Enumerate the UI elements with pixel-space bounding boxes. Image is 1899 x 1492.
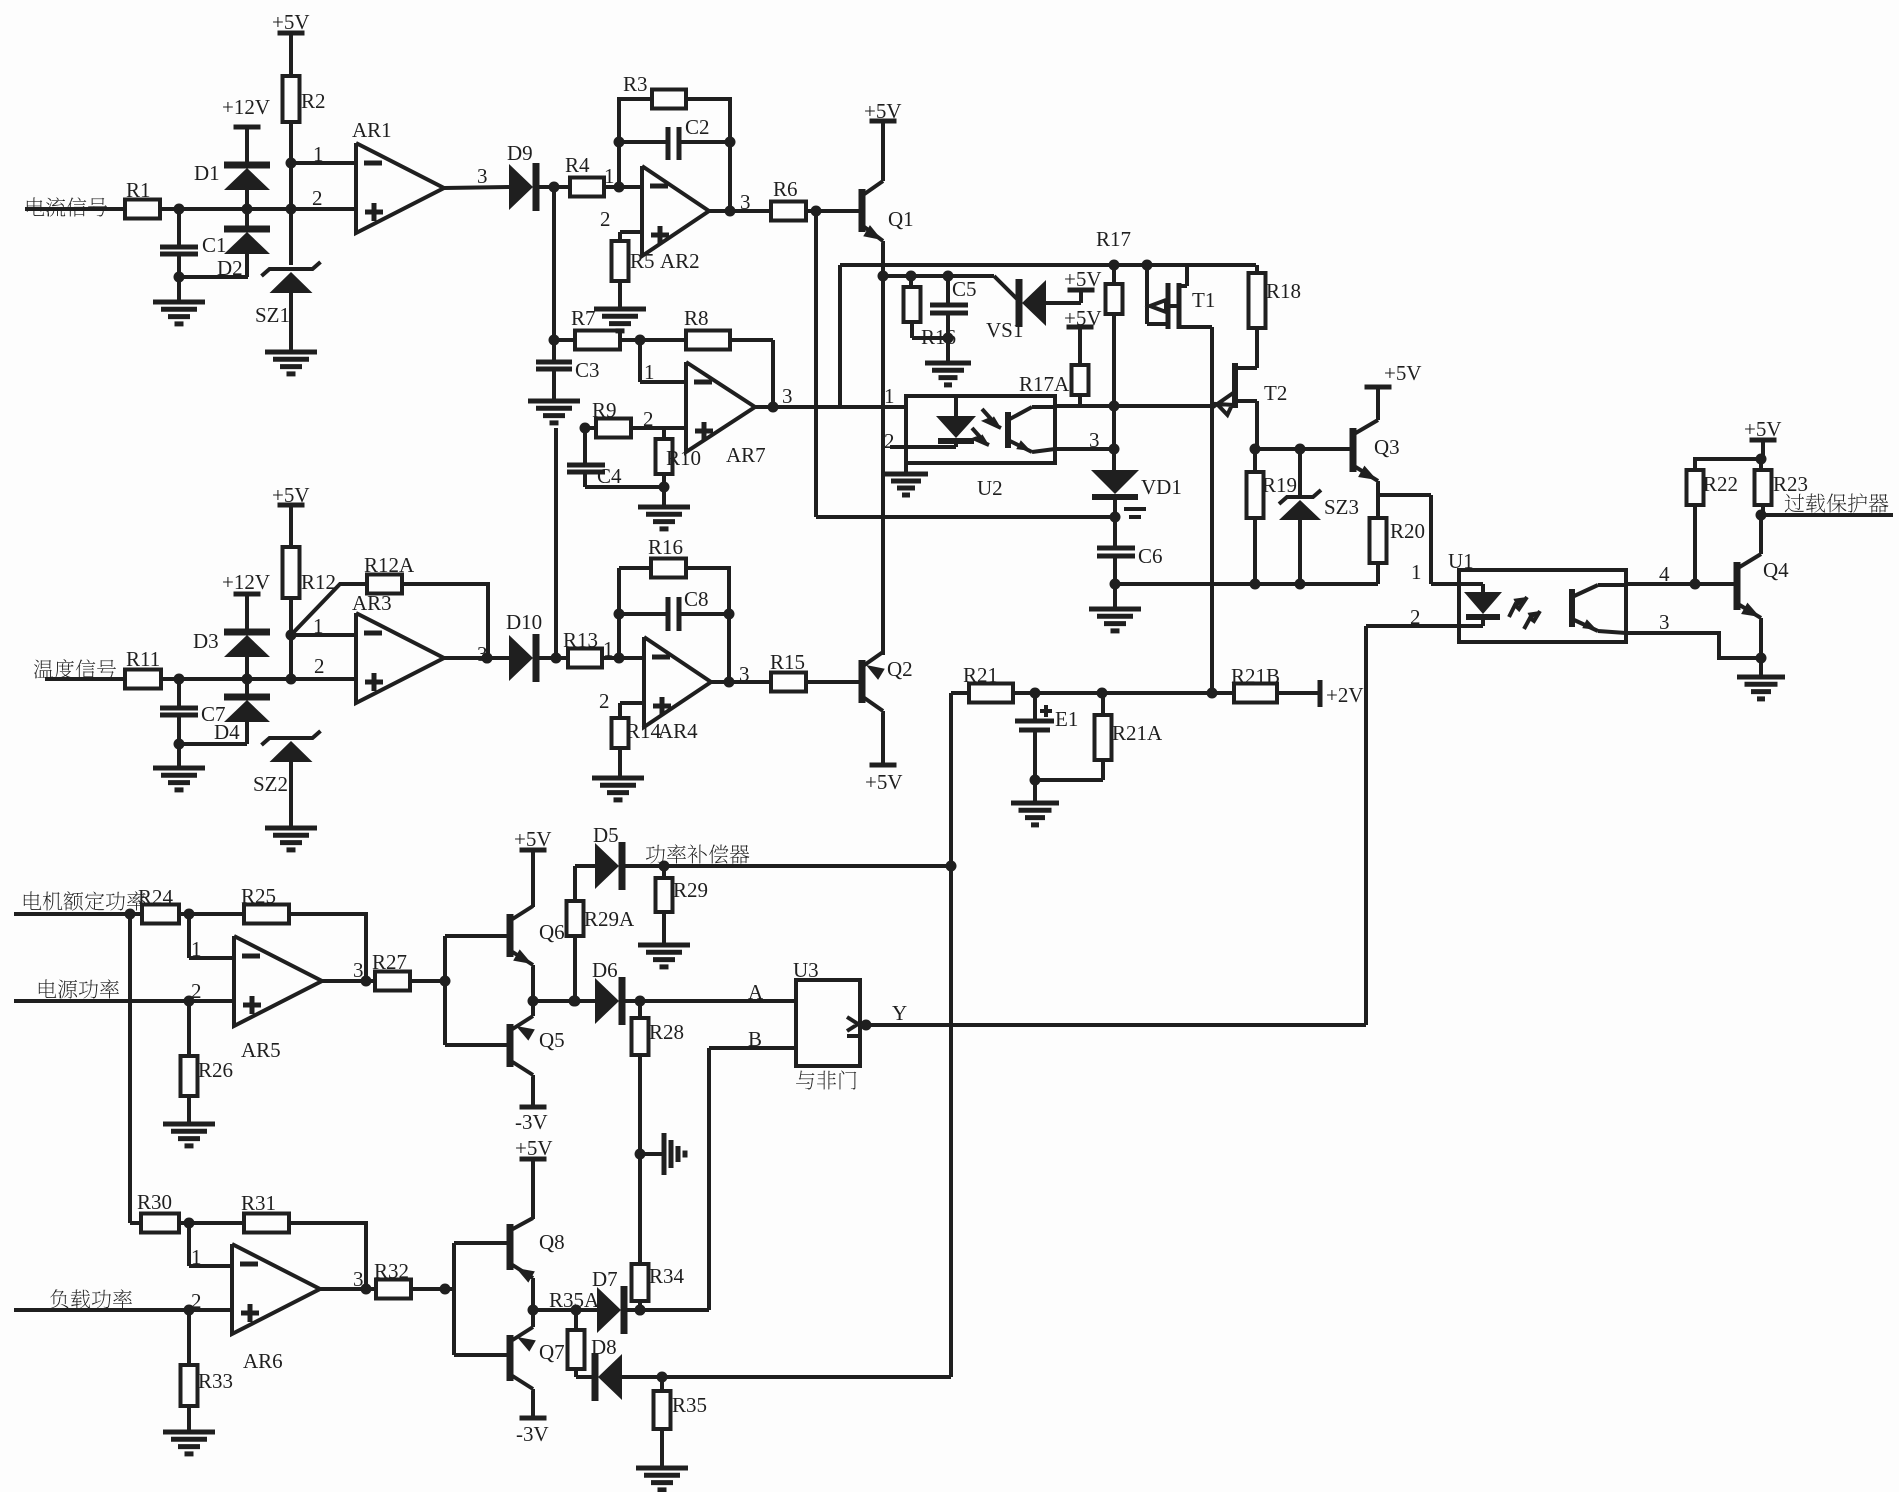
svg-text:Q3: Q3 — [1374, 435, 1400, 459]
svg-text:AR5: AR5 — [241, 1038, 281, 1062]
svg-text:R19: R19 — [1262, 473, 1297, 497]
svg-text:C6: C6 — [1138, 544, 1163, 568]
svg-text:+5V: +5V — [514, 827, 552, 851]
svg-text:3: 3 — [353, 958, 364, 982]
svg-text:R35: R35 — [672, 1393, 707, 1417]
svg-text:+5V: +5V — [272, 10, 310, 34]
svg-text:R11: R11 — [126, 647, 160, 671]
svg-text:+12V: +12V — [222, 95, 270, 119]
svg-text:+5V: +5V — [1064, 306, 1102, 330]
svg-text:R3: R3 — [623, 72, 648, 96]
svg-text:+12V: +12V — [222, 570, 270, 594]
svg-text:1: 1 — [1411, 560, 1422, 584]
svg-text:R23: R23 — [1773, 472, 1808, 496]
svg-text:SZ3: SZ3 — [1324, 495, 1359, 519]
svg-text:AR3: AR3 — [352, 591, 392, 615]
svg-text:C5: C5 — [952, 277, 977, 301]
svg-text:R20: R20 — [1390, 519, 1425, 543]
svg-text:AR2: AR2 — [660, 249, 700, 273]
svg-text:D10: D10 — [506, 610, 542, 634]
svg-text:2: 2 — [643, 407, 654, 431]
svg-text:T1: T1 — [1192, 288, 1215, 312]
svg-text:R34: R34 — [649, 1264, 685, 1288]
svg-text:1: 1 — [644, 360, 655, 384]
svg-text:AR6: AR6 — [243, 1349, 283, 1373]
svg-text:R25: R25 — [241, 884, 276, 908]
svg-text:R30: R30 — [137, 1190, 172, 1214]
svg-text:C7: C7 — [201, 702, 226, 726]
svg-text:C1: C1 — [202, 233, 227, 257]
svg-text:3: 3 — [477, 164, 488, 188]
svg-text:R21B: R21B — [1231, 664, 1280, 688]
svg-text:VD1: VD1 — [1141, 475, 1182, 499]
svg-text:AR4: AR4 — [658, 719, 698, 743]
svg-text:R6: R6 — [773, 177, 798, 201]
svg-text:R31: R31 — [241, 1191, 276, 1215]
svg-text:R4: R4 — [565, 153, 590, 177]
svg-text:D3: D3 — [193, 629, 219, 653]
svg-text:D5: D5 — [593, 823, 619, 847]
svg-text:D1: D1 — [194, 161, 220, 185]
svg-text:D7: D7 — [592, 1267, 618, 1291]
svg-text:T2: T2 — [1264, 381, 1287, 405]
svg-text:Y: Y — [892, 1001, 907, 1025]
svg-text:C4: C4 — [597, 464, 622, 488]
svg-text:AR1: AR1 — [352, 118, 392, 142]
svg-text:R17: R17 — [1096, 227, 1131, 251]
svg-text:R18: R18 — [1266, 279, 1301, 303]
svg-text:2: 2 — [884, 429, 895, 453]
svg-text:3: 3 — [353, 1267, 364, 1291]
svg-text:+5V: +5V — [1064, 267, 1102, 291]
svg-text:1: 1 — [313, 614, 324, 638]
svg-text:R10: R10 — [666, 446, 701, 470]
svg-text:R14: R14 — [626, 719, 662, 743]
svg-text:1: 1 — [604, 164, 615, 188]
svg-text:D2: D2 — [217, 256, 243, 280]
svg-text:1: 1 — [191, 1245, 202, 1269]
svg-text:Q5: Q5 — [539, 1028, 565, 1052]
svg-text:R12: R12 — [301, 570, 336, 594]
svg-text:3: 3 — [739, 662, 750, 686]
svg-text:-3V: -3V — [516, 1422, 549, 1446]
svg-text:AR7: AR7 — [726, 443, 766, 467]
svg-text:R7: R7 — [571, 306, 596, 330]
svg-text:+5V: +5V — [1384, 361, 1422, 385]
svg-text:2: 2 — [191, 1289, 202, 1313]
svg-text:Q8: Q8 — [539, 1230, 565, 1254]
svg-text:2: 2 — [599, 689, 610, 713]
svg-text:C3: C3 — [575, 358, 600, 382]
svg-text:R35A: R35A — [549, 1288, 600, 1312]
svg-text:R5: R5 — [630, 249, 655, 273]
svg-text:+5V: +5V — [272, 483, 310, 507]
svg-text:R12A: R12A — [364, 553, 415, 577]
svg-text:E1: E1 — [1055, 707, 1078, 731]
svg-text:VS1: VS1 — [986, 318, 1023, 342]
svg-text:Q4: Q4 — [1763, 558, 1789, 582]
svg-text:SZ1: SZ1 — [255, 303, 290, 327]
svg-text:D6: D6 — [592, 958, 618, 982]
svg-text:2: 2 — [314, 654, 325, 678]
svg-text:R15: R15 — [770, 650, 805, 674]
svg-text:U2: U2 — [977, 476, 1003, 500]
svg-text:3: 3 — [1659, 610, 1670, 634]
svg-text:Q7: Q7 — [539, 1340, 565, 1364]
svg-text:D9: D9 — [507, 141, 533, 165]
svg-text:Q2: Q2 — [887, 657, 913, 681]
svg-text:2: 2 — [312, 186, 323, 210]
svg-text:R33: R33 — [198, 1369, 233, 1393]
svg-text:-3V: -3V — [515, 1110, 548, 1134]
svg-text:U3: U3 — [793, 958, 819, 982]
svg-text:1: 1 — [191, 937, 202, 961]
svg-text:Q1: Q1 — [888, 207, 914, 231]
svg-text:R16: R16 — [921, 325, 956, 349]
svg-text:4: 4 — [1659, 562, 1670, 586]
svg-text:D8: D8 — [591, 1335, 617, 1359]
svg-text:R8: R8 — [684, 306, 709, 330]
svg-text:R29: R29 — [673, 878, 708, 902]
svg-text:R29A: R29A — [584, 907, 635, 931]
svg-text:Q6: Q6 — [539, 920, 565, 944]
svg-text:R21: R21 — [963, 663, 998, 687]
svg-text:R17A: R17A — [1019, 372, 1070, 396]
svg-text:3: 3 — [740, 190, 751, 214]
svg-text:+5V: +5V — [864, 99, 902, 123]
svg-text:A: A — [748, 980, 764, 1004]
svg-text:R13: R13 — [563, 628, 598, 652]
svg-text:2: 2 — [1410, 605, 1421, 629]
svg-text:+2V: +2V — [1326, 683, 1364, 707]
svg-text:B: B — [748, 1027, 762, 1051]
svg-text:U1: U1 — [1448, 549, 1474, 573]
svg-text:R1: R1 — [126, 178, 151, 202]
svg-text:1: 1 — [603, 637, 614, 661]
svg-text:R2: R2 — [301, 89, 326, 113]
svg-text:2: 2 — [191, 979, 202, 1003]
svg-text:C8: C8 — [684, 587, 709, 611]
svg-text:3: 3 — [477, 642, 488, 666]
svg-text:+5V: +5V — [515, 1136, 553, 1160]
svg-text:R27: R27 — [372, 950, 407, 974]
svg-text:R9: R9 — [592, 398, 617, 422]
svg-text:+5V: +5V — [1744, 417, 1782, 441]
svg-text:R22: R22 — [1703, 472, 1738, 496]
svg-text:3: 3 — [1089, 428, 1100, 452]
svg-text:3: 3 — [782, 384, 793, 408]
svg-text:C2: C2 — [685, 115, 710, 139]
svg-text:+5V: +5V — [865, 770, 903, 794]
svg-text:R32: R32 — [374, 1259, 409, 1283]
svg-text:1: 1 — [884, 384, 895, 408]
svg-text:R28: R28 — [649, 1020, 684, 1044]
svg-text:R16: R16 — [648, 535, 683, 559]
svg-text:SZ2: SZ2 — [253, 772, 288, 796]
svg-text:2: 2 — [600, 207, 611, 231]
svg-text:R26: R26 — [198, 1058, 233, 1082]
svg-text:R21A: R21A — [1112, 721, 1163, 745]
svg-text:1: 1 — [313, 142, 324, 166]
